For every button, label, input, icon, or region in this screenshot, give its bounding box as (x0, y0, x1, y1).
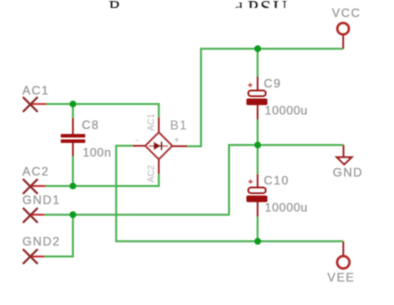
svg-text:AC1: AC1 (22, 84, 49, 98)
svg-text:GND: GND (333, 166, 363, 180)
svg-text:AC2: AC2 (146, 165, 156, 183)
svg-text:10000u: 10000u (265, 200, 308, 214)
svg-text:10000u: 10000u (265, 103, 308, 117)
svg-text:-: - (136, 135, 139, 145)
svg-text:d: d (234, 0, 243, 18)
svg-text:AC1: AC1 (146, 113, 156, 131)
svg-text:C8: C8 (82, 118, 100, 132)
svg-text:B1: B1 (170, 118, 188, 133)
svg-text:GND1: GND1 (22, 193, 60, 207)
svg-text:+: + (174, 135, 179, 145)
svg-text:C9: C9 (264, 77, 282, 91)
svg-text:100n: 100n (83, 146, 112, 160)
svg-text:VEE: VEE (327, 270, 355, 284)
svg-text:GND2: GND2 (22, 235, 60, 249)
svg-text:VCC: VCC (332, 6, 361, 20)
svg-text:AC2: AC2 (22, 165, 49, 179)
svg-text:R: R (109, 0, 122, 19)
svg-text:C10: C10 (264, 174, 290, 188)
svg-text:PSU: PSU (248, 0, 289, 19)
